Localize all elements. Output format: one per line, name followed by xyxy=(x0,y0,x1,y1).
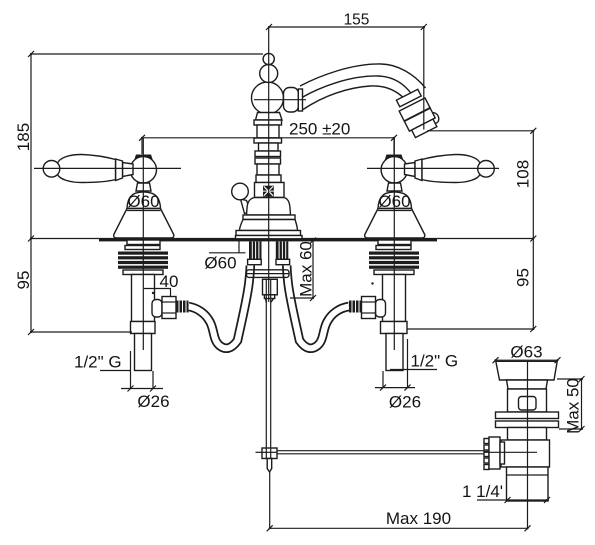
svg-text:1 1/4': 1 1/4' xyxy=(462,482,503,501)
drain center line xyxy=(527,361,529,509)
finial medium ball xyxy=(260,65,278,83)
svg-text:108: 108 xyxy=(514,160,533,188)
left flexible hose xyxy=(189,266,251,349)
dim diameter 26 left xyxy=(121,371,170,411)
left handle center line xyxy=(34,167,181,169)
svg-text:Ø26: Ø26 xyxy=(389,393,421,412)
left handle collar xyxy=(116,159,123,181)
svg-text:185: 185 xyxy=(14,123,33,151)
dim Max 60 xyxy=(290,238,316,302)
ball horizontal center line xyxy=(254,99,306,101)
drain neck xyxy=(507,380,548,389)
label 1/2 G right xyxy=(390,339,458,388)
aerator xyxy=(394,87,442,139)
right valve below-deck plates xyxy=(376,240,411,250)
rod clamp xyxy=(262,448,277,459)
left hose nipple xyxy=(176,301,189,313)
right valve shank xyxy=(383,275,406,322)
faucet body big ball xyxy=(252,82,284,114)
svg-text:Max 190: Max 190 xyxy=(386,509,451,528)
right valve stem xyxy=(387,183,402,191)
svg-text:250 ±20: 250 ±20 xyxy=(289,120,350,139)
cartridge block xyxy=(255,183,285,198)
right valve nut xyxy=(381,322,408,334)
right valve washer xyxy=(374,270,414,275)
dim Max 50 xyxy=(557,376,585,434)
left handle ball xyxy=(130,157,156,183)
center column center line xyxy=(268,27,270,302)
right tailpiece xyxy=(386,334,403,371)
center tailpiece xyxy=(264,295,274,299)
svg-text:Ø26: Ø26 xyxy=(137,392,169,411)
dim diameter 63 xyxy=(493,343,561,364)
svg-text:Ø60: Ø60 xyxy=(204,254,236,273)
svg-text:Max 60: Max 60 xyxy=(297,241,316,297)
center bell flare xyxy=(240,220,298,231)
left escutcheon bell xyxy=(114,209,174,239)
left valve washer xyxy=(123,270,163,275)
drain plate 2 xyxy=(496,421,559,428)
right valve center line xyxy=(393,138,395,350)
drain wide section xyxy=(501,440,550,467)
pop-up rod xyxy=(266,280,270,448)
left valve stem xyxy=(136,183,151,191)
knurled nut xyxy=(484,437,505,470)
left valve nut xyxy=(131,322,156,334)
svg-text:Ø60: Ø60 xyxy=(378,192,410,211)
center bell base plate xyxy=(236,236,303,239)
svg-text:40: 40 xyxy=(160,272,179,291)
svg-text:1/2" G: 1/2" G xyxy=(411,352,459,371)
center left stud xyxy=(248,242,262,265)
svg-text:155: 155 xyxy=(344,12,370,29)
dim 250 plus-minus 20 xyxy=(139,120,397,155)
right escutcheon dome xyxy=(378,192,412,209)
column neck under ball xyxy=(256,113,283,121)
spout tube xyxy=(300,64,426,110)
drain flange xyxy=(496,361,557,380)
left handle neck xyxy=(123,163,134,177)
center nut block xyxy=(263,279,278,295)
right escutcheon bell xyxy=(365,209,425,239)
center bell tier xyxy=(243,215,295,220)
right flexible hose xyxy=(287,266,349,349)
drain window xyxy=(519,397,537,411)
spout elbow collar xyxy=(284,88,299,113)
right handle lever xyxy=(422,154,480,182)
left tailpiece xyxy=(135,334,152,371)
left escutcheon dome xyxy=(127,192,161,209)
clamp pin xyxy=(267,459,272,473)
dim 108 xyxy=(427,128,536,242)
spout ring xyxy=(298,89,302,111)
label diameter 60 center xyxy=(204,240,245,273)
cartridge symbol xyxy=(263,186,274,197)
drain plate 1 xyxy=(496,412,559,419)
drain knob stem xyxy=(241,199,252,214)
column rings xyxy=(254,120,282,183)
right hose nipple xyxy=(349,301,362,313)
left valve center line xyxy=(142,138,144,350)
center bell base ring xyxy=(236,231,301,236)
dim 95 right xyxy=(407,239,537,333)
dim diameter 26 right xyxy=(375,371,421,412)
svg-text:1/2" G: 1/2" G xyxy=(74,353,122,372)
svg-text:Max 50: Max 50 xyxy=(564,378,583,434)
left hose connector hex xyxy=(162,297,176,319)
left handle tip ball xyxy=(43,161,60,178)
right hose connector hex xyxy=(362,297,376,319)
dim 155 xyxy=(266,12,427,130)
center bell dome xyxy=(247,198,291,216)
left hose connector cap xyxy=(152,300,162,318)
right handle center line xyxy=(367,167,499,169)
right handle neck xyxy=(405,163,416,177)
drain bottom section xyxy=(507,467,549,501)
right handle collar xyxy=(415,159,422,181)
right handle ball cap xyxy=(385,155,404,161)
svg-text:Ø63: Ø63 xyxy=(510,343,542,362)
right hose connector cap xyxy=(376,300,386,318)
finial small ball xyxy=(263,53,274,64)
right handle ball xyxy=(381,157,407,183)
deck / counter line xyxy=(30,238,534,241)
tiny mark right connector xyxy=(371,282,373,284)
svg-text:Ø60: Ø60 xyxy=(127,192,159,211)
tiny mark left connector xyxy=(152,292,154,294)
drain mid body xyxy=(508,428,547,441)
drain knob xyxy=(232,183,249,200)
left valve shank xyxy=(132,275,155,322)
dim 40 xyxy=(144,272,178,296)
right valve ribbed block xyxy=(369,252,419,269)
left valve ribbed block xyxy=(118,252,168,269)
center bracket bar xyxy=(247,270,290,278)
svg-text:95: 95 xyxy=(14,271,33,290)
right handle tip ball xyxy=(478,161,495,178)
dim 95 left xyxy=(14,239,132,336)
drain upper body xyxy=(508,389,547,412)
left handle ball cap xyxy=(134,155,153,161)
left handle lever xyxy=(58,154,116,182)
horizontal drain rod xyxy=(256,451,485,454)
dim 185 xyxy=(14,51,263,242)
dim Max 190 xyxy=(267,472,531,532)
center right stud xyxy=(276,242,290,265)
label 1/2 G left xyxy=(74,351,131,389)
svg-text:95: 95 xyxy=(514,268,533,287)
dim 1 1/4 xyxy=(462,482,550,503)
left valve below-deck plates xyxy=(125,240,160,250)
